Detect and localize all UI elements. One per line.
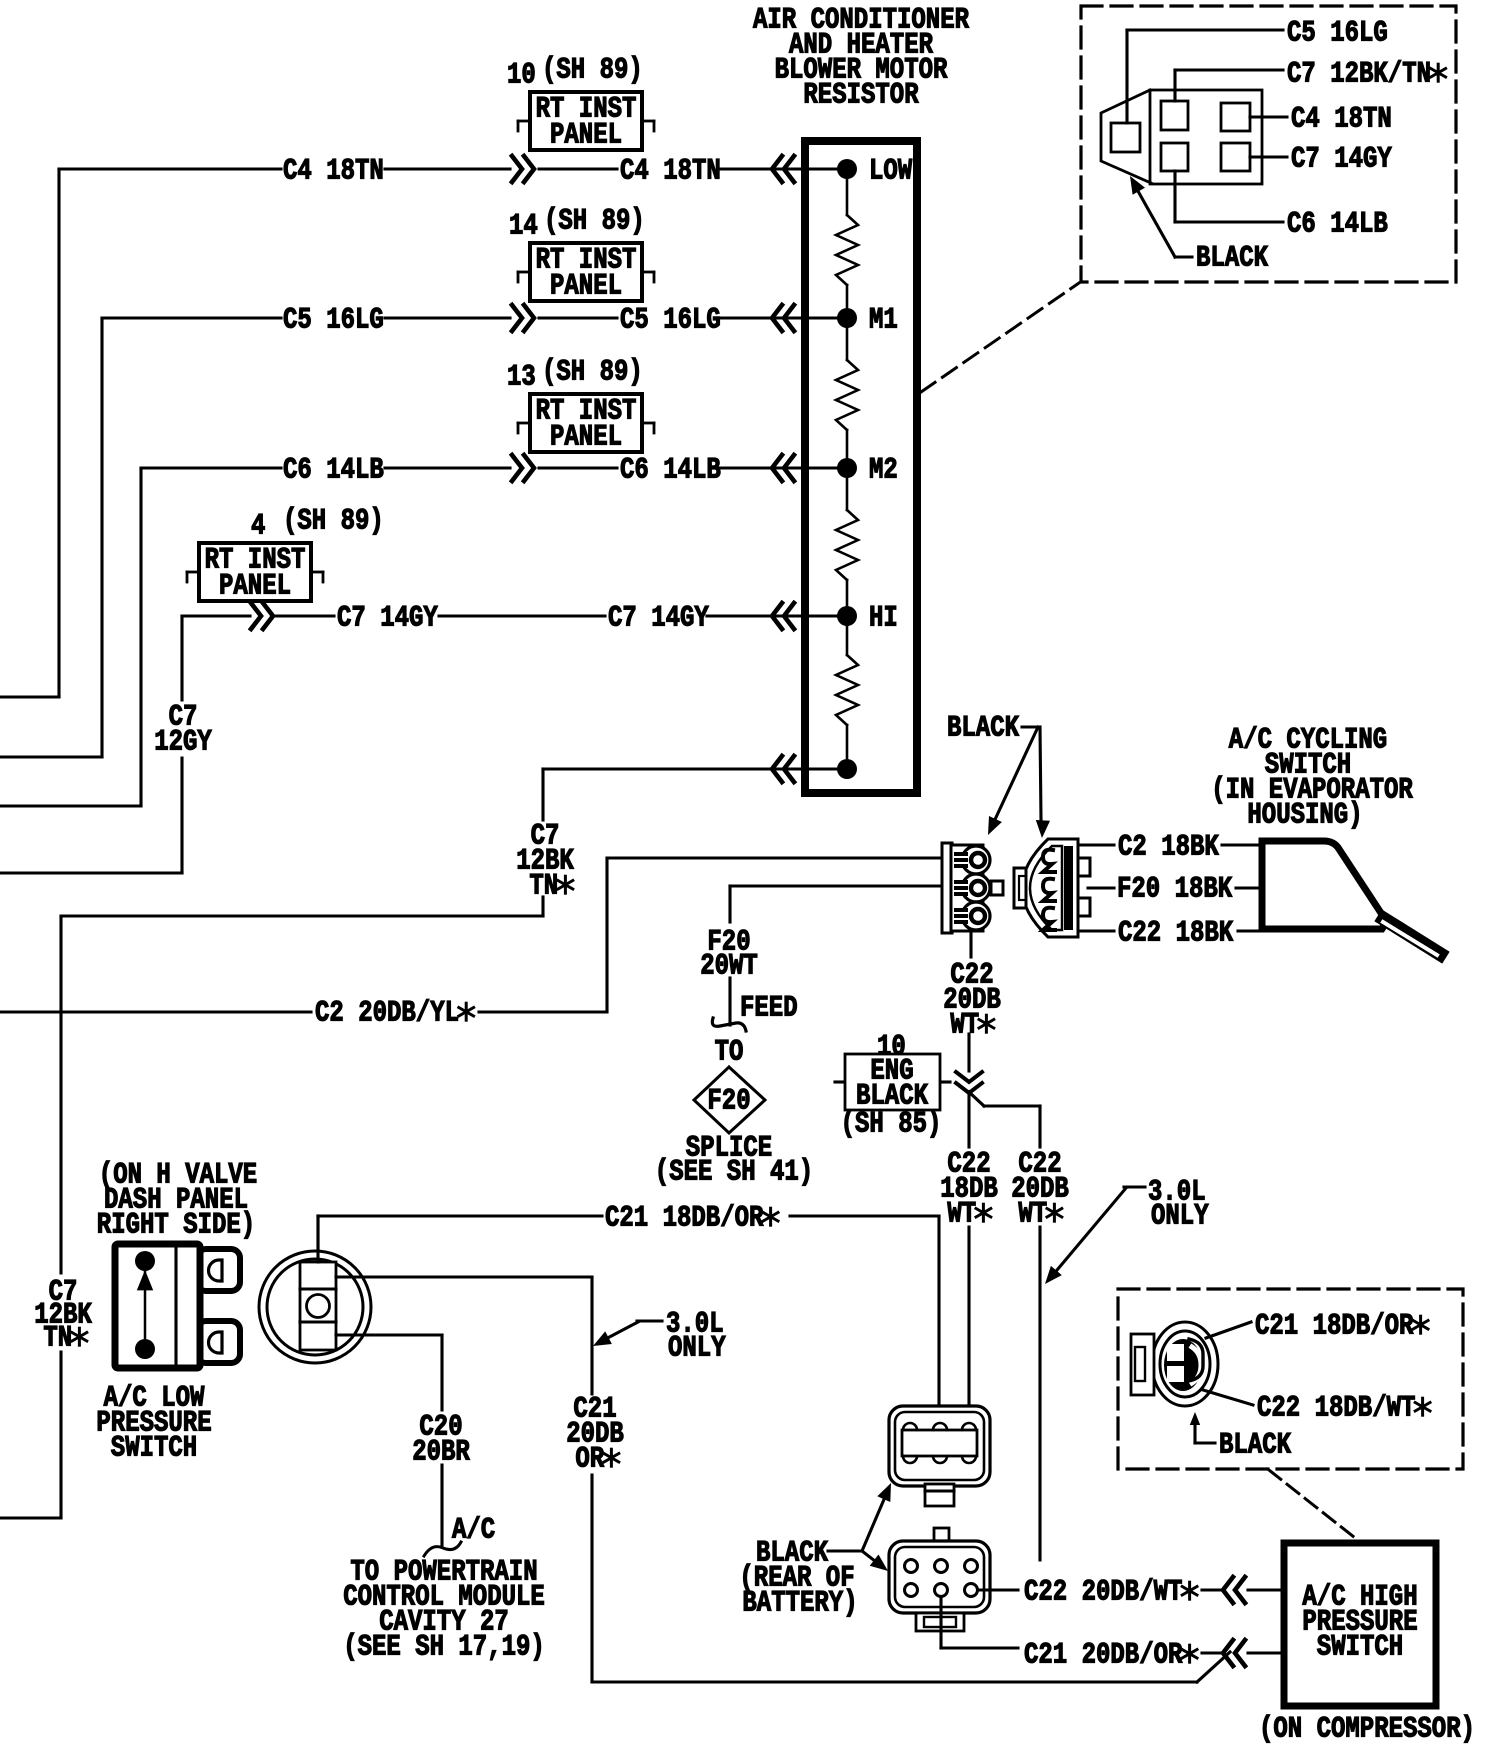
A/C high pressure switch box — [1284, 1543, 1436, 1706]
connector B terminal 3 — [1043, 908, 1055, 930]
wire: left drop of C5 row — [100, 318, 103, 757]
svg-text:ONLY: ONLY — [1151, 1201, 1209, 1234]
svg-text:(ON COMPRESSOR): (ON COMPRESSOR) — [1259, 1714, 1475, 1747]
resistor block: A/C and heater blower motor resistor — [805, 141, 917, 793]
svg-text:(SH 89): (SH 89) — [542, 55, 643, 88]
inline connector << at resistor common — [772, 756, 782, 782]
node common (bottom pin) — [837, 759, 857, 779]
A/C low pressure switch body — [197, 1249, 240, 1291]
leader arrow to connector A — [992, 727, 1038, 826]
wire C22 18DB/WT* — [967, 1092, 970, 1147]
svg-text:BLACK: BLACK — [1196, 243, 1269, 276]
svg-text:BLACK: BLACK — [1219, 1430, 1292, 1463]
node HI — [837, 606, 857, 626]
svg-text:FEED: FEED — [740, 993, 798, 1026]
detail round connector outer — [1152, 1322, 1218, 1406]
resistor element R3 (M2-HI) — [846, 468, 849, 510]
feed tick symbol — [712, 1018, 746, 1031]
svg-text:C4 18TN: C4 18TN — [1291, 104, 1392, 137]
detail connector nose — [1101, 90, 1151, 183]
svg-text:C4 18TN: C4 18TN — [620, 156, 721, 189]
node M1 — [837, 308, 857, 328]
wire C7 14GY row — [182, 614, 250, 617]
connector B lock rail — [1064, 846, 1073, 930]
wire C6 14LB (detail) — [1173, 171, 1176, 222]
RT INST PANEL box — [518, 120, 530, 123]
inline connector >> row2 — [524, 305, 534, 331]
dashed leader to high pressure switch — [1269, 1470, 1359, 1541]
inline connector << at resistor M2 — [772, 455, 782, 481]
svg-text:PANEL: PANEL — [550, 271, 622, 304]
wire C5 16LG row — [102, 316, 281, 319]
wire from valve to C21 — [316, 1216, 319, 1262]
svg-text:WT: WT — [950, 1010, 979, 1043]
svg-text:BATTERY): BATTERY) — [742, 1588, 857, 1621]
svg-text:C4 18TN: C4 18TN — [283, 156, 384, 189]
detail round connector terminals — [1164, 1339, 1202, 1391]
cycling switch pigtail — [1384, 919, 1440, 954]
H-valve (on dash panel) circle symbol — [259, 1251, 371, 1363]
wire F20 20WT — [730, 884, 940, 887]
inline connector >> row3 — [524, 455, 534, 481]
svg-text:TO: TO — [715, 1037, 744, 1070]
connector A pin 1 — [971, 853, 985, 867]
wire C7 12BK/TN* from resistor common — [543, 767, 843, 770]
svg-text:PANEL: PANEL — [550, 422, 622, 455]
svg-text:14: 14 — [509, 211, 538, 244]
grommet pass-through chevrons — [956, 1072, 982, 1082]
svg-text:10: 10 — [507, 60, 536, 93]
svg-text:C2 18BK: C2 18BK — [1118, 832, 1220, 865]
svg-text:(SH 89): (SH 89) — [544, 206, 645, 239]
inline connector << at resistor M1 — [772, 305, 782, 331]
wire: left drop of C4 row — [57, 169, 60, 697]
detail connector cavity C7 12BK/TN* — [1161, 101, 1188, 130]
svg-text:HOUSING): HOUSING) — [1247, 800, 1362, 833]
wire C2 18BK — [1080, 843, 1114, 846]
svg-text:C7 14GY: C7 14GY — [608, 603, 710, 636]
connector A pin 2 — [971, 881, 985, 895]
svg-text:C6 14LB: C6 14LB — [283, 455, 384, 488]
svg-text:C21 20DB/OR: C21 20DB/OR — [1024, 1640, 1183, 1673]
svg-text:C7 12BK/TN: C7 12BK/TN — [1287, 59, 1431, 92]
detail connector body — [1150, 90, 1262, 184]
leader arrow to upper connector — [862, 1490, 888, 1551]
svg-text:(SEE SH 17,19): (SEE SH 17,19) — [343, 1632, 545, 1665]
wire C22 20DB/WT* to high pressure switch — [978, 1588, 1018, 1591]
connector B index tab — [1014, 868, 1026, 908]
svg-text:PANEL: PANEL — [550, 120, 622, 153]
splice symbol F20 — [694, 1067, 765, 1133]
leader arrow to connector B — [1040, 727, 1041, 820]
svg-text:OR: OR — [575, 1444, 605, 1477]
battery-area connector (upper): terminal strip — [902, 1430, 977, 1456]
connector B: 3-pin female connector — [1022, 839, 1078, 937]
detail round connector mount — [1131, 1334, 1154, 1395]
wire C22 20DB/WT* branch (3.0L) — [969, 1092, 984, 1106]
detail connector key cavity — [1111, 123, 1140, 152]
detail view dashed box (blower resistor connector) — [1081, 6, 1456, 282]
svg-text:PANEL: PANEL — [219, 571, 291, 604]
battery-area connector (lower): body — [889, 1541, 990, 1613]
wire C21 18DB/OR* (detail) — [1206, 1322, 1251, 1338]
svg-text:C2 20DB/YL: C2 20DB/YL — [315, 998, 459, 1031]
svg-text:C5 16LG: C5 16LG — [620, 305, 721, 338]
connector A: 3-pin male connector — [942, 843, 952, 933]
svg-text:TN: TN — [43, 1323, 72, 1356]
inline connector >> row4 — [263, 603, 273, 629]
svg-text:(SH 85): (SH 85) — [841, 1109, 942, 1142]
svg-text:A/C: A/C — [452, 1515, 495, 1548]
svg-text:C7 14GY: C7 14GY — [337, 603, 439, 636]
svg-text:(SH 89): (SH 89) — [283, 506, 384, 539]
svg-text:12GY: 12GY — [154, 727, 212, 760]
battery-area connector (upper): body — [889, 1406, 990, 1486]
RT INST PANEL box — [187, 571, 199, 574]
svg-text:C6 14LB: C6 14LB — [620, 455, 721, 488]
detail connector cavity C4 18TN — [1221, 103, 1250, 131]
svg-text:F20: F20 — [707, 1086, 750, 1119]
wire C4 18TN row — [59, 167, 281, 170]
svg-text:WT: WT — [947, 1199, 976, 1232]
svg-text:C5 16LG: C5 16LG — [1287, 18, 1388, 51]
detail view dashed box (high pressure switch connector) — [1118, 1289, 1463, 1469]
wire C7 12BK/TN* (detail) — [1173, 70, 1176, 101]
battery-area connector (lower): bottom tab — [916, 1613, 964, 1631]
svg-text:4: 4 — [251, 511, 265, 544]
resistor element R2 (M1-M2) — [846, 318, 849, 360]
wire C21 20DB/OR* to high pressure switch — [939, 1597, 942, 1648]
svg-text:HI: HI — [869, 603, 898, 636]
low pressure switch terminal D1 — [209, 1260, 223, 1281]
svg-text:C22 20DB/WT: C22 20DB/WT — [1024, 1577, 1182, 1610]
svg-text:SWITCH: SWITCH — [1317, 1632, 1403, 1665]
inline connector >> row1 — [524, 156, 534, 182]
connector B terminal 1 — [1043, 850, 1055, 872]
A/C cycling switch body — [1262, 841, 1384, 929]
svg-text:BLACK: BLACK — [947, 713, 1020, 746]
detail connector cavity C6 14LB — [1161, 143, 1188, 171]
svg-text:ONLY: ONLY — [668, 1333, 726, 1366]
wire C6 14LB row — [141, 466, 281, 469]
resistor element R4 (HI-common) — [846, 616, 849, 655]
svg-text:WT: WT — [1018, 1199, 1047, 1232]
svg-text:M2: M2 — [869, 455, 898, 488]
low pressure switch contacts — [135, 1251, 155, 1271]
leader arrow to lower connector — [862, 1551, 880, 1565]
svg-text:(SEE SH 41): (SEE SH 41) — [655, 1157, 813, 1190]
detail connector cavity C7 14GY — [1221, 143, 1250, 171]
connector B keyways — [1078, 858, 1090, 876]
wire C20 20BR from valve — [336, 1333, 442, 1336]
connector B terminal 2 — [1043, 879, 1055, 901]
svg-text:C22 18BK: C22 18BK — [1118, 918, 1234, 951]
svg-text:F20 18BK: F20 18BK — [1117, 874, 1233, 907]
RT INST PANEL box — [518, 271, 530, 274]
wire: left drop of C7 14GY row, becomes C7 12GY — [180, 616, 183, 700]
svg-text:C21 18DB/OR: C21 18DB/OR — [605, 1203, 764, 1236]
wire C22 18BK — [1080, 929, 1114, 932]
wire C4 18TN (detail) — [1250, 115, 1287, 118]
svg-text:C22 18DB/WT: C22 18DB/WT — [1257, 1393, 1415, 1426]
inline connector << at resistor LOW — [772, 156, 782, 182]
wire F20 18BK — [1088, 886, 1114, 889]
wire C21 18DB/OR* — [316, 1216, 319, 1250]
wire C5 16LG (detail) — [1125, 30, 1128, 123]
RT INST PANEL box — [518, 422, 530, 425]
svg-text:C7 14GY: C7 14GY — [1291, 144, 1393, 177]
wire: left C7 12BK TN* drop — [59, 916, 62, 1273]
svg-text:SWITCH: SWITCH — [111, 1433, 197, 1466]
svg-text:C21 18DB/OR: C21 18DB/OR — [1255, 1311, 1414, 1344]
node LOW — [837, 159, 857, 179]
connector A pin 3 — [971, 909, 985, 923]
wire C22 20DB/WT* — [969, 931, 972, 957]
svg-text:RIGHT SIDE): RIGHT SIDE) — [97, 1210, 255, 1243]
resistor element R1 (LOW-M1) — [846, 169, 849, 215]
wire C7 14GY (detail) — [1250, 155, 1287, 158]
svg-text:13: 13 — [507, 362, 536, 395]
wire: left drop of C6 row — [139, 468, 142, 806]
svg-text:M1: M1 — [869, 305, 898, 338]
node M2 — [837, 458, 857, 478]
wire C21 20DB/OR* from valve — [336, 1275, 592, 1278]
svg-text:LOW: LOW — [869, 156, 913, 189]
svg-text:C6 14LB: C6 14LB — [1287, 209, 1388, 242]
inline connector << at resistor HI — [772, 603, 782, 629]
svg-text:RESISTOR: RESISTOR — [803, 80, 919, 113]
connector A latch tab — [991, 881, 1003, 895]
wire C22 18DB/WT* (detail) — [1203, 1390, 1253, 1405]
wire C2 20DB/YL* — [0, 1010, 311, 1013]
A/C splice tick — [424, 1542, 461, 1556]
svg-text:(SH 89): (SH 89) — [542, 357, 643, 390]
battery-area connector (lower) pins — [905, 1560, 918, 1573]
battery-area connector (lower): top tab — [934, 1528, 949, 1542]
low pressure switch terminal D2 — [209, 1332, 223, 1353]
battery-area connector (upper): lock tab — [925, 1484, 954, 1506]
svg-text:C5 16LG: C5 16LG — [283, 305, 384, 338]
dashed leader from resistor block to detail box — [921, 283, 1079, 392]
